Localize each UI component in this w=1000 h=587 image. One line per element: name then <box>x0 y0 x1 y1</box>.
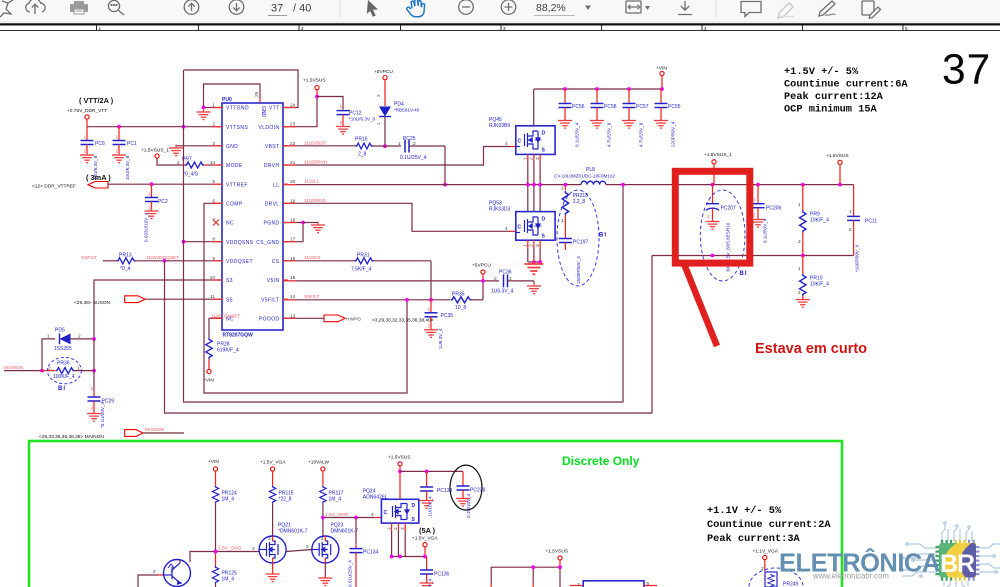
resistor PR124 <box>212 486 237 552</box>
svg-text:VDDQSET: VDDQSET <box>226 259 253 265</box>
svg-text:PR31: PR31 <box>357 252 370 258</box>
IC right pin stubs <box>283 108 288 319</box>
svg-text:1: 1 <box>340 104 343 110</box>
toolbar icon download arrow <box>678 1 692 15</box>
svg-text:PC136: PC136 <box>434 572 450 578</box>
diode PD4 RB501V-40 <box>376 80 420 146</box>
capacitor PC6 <box>80 127 105 180</box>
svg-text:+VIN: +VIN <box>656 66 667 72</box>
wire LL rail after coil <box>606 184 675 186</box>
IC right pin names <box>256 106 280 323</box>
svg-text:+1.1V +/- 5%: +1.1V +/- 5% <box>707 505 782 517</box>
svg-text:PC35: PC35 <box>441 313 454 319</box>
wire PC25 to LL rail <box>444 146 446 185</box>
connector arrow MAINON (tip right) <box>125 430 143 437</box>
op-amp U1 : regulator IC PU0 RT8207GQW body <box>222 103 283 330</box>
blue comparator box bottom <box>583 581 644 587</box>
svg-text:COMP: COMP <box>226 202 243 208</box>
logo circuit traces left <box>901 543 937 578</box>
svg-text:+10VALW: +10VALW <box>308 460 329 466</box>
svg-text:1: 1 <box>386 527 392 530</box>
svg-text:25: 25 <box>254 91 260 97</box>
transistor Q PQ23 DMN601K-7 <box>312 523 358 586</box>
wire to PC139/PC238 <box>400 470 463 472</box>
logo chip body <box>939 543 976 578</box>
transistor Q PQ45 RJK0389 <box>489 89 555 154</box>
resistor PR218 <box>561 185 588 238</box>
svg-text:*0_4: *0_4 <box>120 266 131 272</box>
svg-text:.1U/10V_4: .1U/10V_4 <box>428 496 433 518</box>
svg-text:VLDOIN: VLDOIN <box>258 125 279 131</box>
wire CS down <box>430 261 432 300</box>
svg-text:PD5: PD5 <box>55 328 65 334</box>
junction PC2 <box>150 182 154 186</box>
svg-text:2: 2 <box>91 406 94 412</box>
transistor Q bottom-left (pre-biased) <box>164 560 191 587</box>
wire box lower left <box>491 567 560 587</box>
svg-text:PC25: PC25 <box>403 136 416 142</box>
svg-text:V5FILT: V5FILT <box>304 294 319 300</box>
IC right pin numbers <box>290 103 296 320</box>
svg-text:+VIN: +VIN <box>203 378 214 384</box>
svg-text:2: 2 <box>428 323 431 329</box>
IC left pin stubs <box>217 108 222 319</box>
resistor PR13 <box>117 252 136 272</box>
capacitor PC2 <box>144 184 168 242</box>
svg-text:Discrete Only: Discrete Only <box>562 454 640 468</box>
svg-text:2: 2 <box>413 141 416 147</box>
svg-text:3: 3 <box>268 536 271 542</box>
resistor PR249 in dashed ellipse <box>749 566 803 587</box>
svg-text:2: 2 <box>561 186 564 192</box>
svg-text:/ 40: / 40 <box>293 3 311 15</box>
logo circuit traces right <box>979 544 1000 573</box>
svg-text:BI: BI <box>58 386 66 392</box>
svg-text:2: 2 <box>252 546 255 552</box>
svg-text:V_4: V_4 <box>428 578 433 587</box>
svg-text:S3: S3 <box>226 278 233 284</box>
transistor Q PQ24 AON6426L <box>363 489 419 524</box>
connector arrow HWPG <box>324 315 345 322</box>
svg-text:(5A ): (5A ) <box>419 526 436 535</box>
svg-text:RJK03D3: RJK03D3 <box>489 207 511 213</box>
svg-text:1: 1 <box>849 209 852 215</box>
wire lower output rail <box>652 255 854 257</box>
toolbar icon star (cut at left edge) <box>0 0 13 17</box>
svg-text:*0.1U/50V_4: *0.1U/50V_4 <box>100 402 105 428</box>
wire VDDQSET row <box>103 260 117 262</box>
toolbar icon hand tool (blue) <box>407 0 425 17</box>
svg-text:619K/F_4: 619K/F_4 <box>217 348 239 354</box>
wire VTTREF <box>108 183 222 185</box>
capacitor PC12 <box>336 104 375 134</box>
wire pin3 GND <box>176 145 222 147</box>
svg-text:2: 2 <box>376 94 382 97</box>
svg-text:D: D <box>542 217 546 223</box>
svg-text:+1.5VSUS: +1.5VSUS <box>546 549 569 555</box>
resistor PR9 <box>798 185 829 256</box>
svg-text:NC: NC <box>226 221 234 227</box>
wire 1.5V_VGA rail <box>392 556 427 558</box>
wire VTTSNS rail <box>87 126 222 128</box>
svg-text:2: 2 <box>798 290 801 296</box>
wire PGND <box>283 223 303 242</box>
capacitor PC134 <box>348 518 379 587</box>
red highlight arrow <box>684 264 717 346</box>
wire 1.5V_ONG lower row <box>138 575 158 587</box>
svg-text:3: 3 <box>535 244 541 247</box>
toolbar icon search <box>108 0 124 15</box>
svg-text:VTTREF: VTTREF <box>226 182 248 188</box>
capacitor PC35 <box>424 300 453 349</box>
svg-text:PC58: PC58 <box>604 104 617 110</box>
svg-text:2: 2 <box>153 569 156 575</box>
svg-text:*DMN601K-7: *DMN601K-7 <box>278 529 308 535</box>
svg-text:DMN601K-7: DMN601K-7 <box>331 529 359 535</box>
svg-text:HWPG: HWPG <box>346 317 361 323</box>
svg-text:4: 4 <box>505 141 508 147</box>
svg-text:Peak current:12A: Peak current:12A <box>784 91 884 103</box>
svg-text:PC197: PC197 <box>573 239 589 245</box>
svg-text:5: 5 <box>905 26 908 31</box>
wire inner top loop pin1/pin25 <box>204 84 261 108</box>
wire PQ21 gate row <box>286 550 312 552</box>
toolbar icon print <box>70 1 88 14</box>
PQ24 source stubs <box>392 523 406 531</box>
svg-text:1: 1 <box>77 365 80 371</box>
svg-text:2.2_8: 2.2_8 <box>573 199 586 205</box>
wire VDDQSNS <box>184 241 223 243</box>
svg-text:2: 2 <box>494 276 497 282</box>
svg-text:<3,29,30,32,33,35,36,38,40>: <3,29,30,32,33,35,36,38,40> <box>372 318 434 324</box>
svg-text:+1.5VSUS: +1.5VSUS <box>826 153 849 159</box>
svg-text:2: 2 <box>529 244 535 247</box>
svg-text:2_8: 2_8 <box>358 151 367 157</box>
svg-text:CS_GND: CS_GND <box>256 240 279 246</box>
svg-text:Peak current:3A: Peak current:3A <box>707 533 801 545</box>
svg-text:2: 2 <box>761 566 764 572</box>
svg-text:3: 3 <box>400 527 406 530</box>
svg-text:2: 2 <box>177 160 180 166</box>
capacitor PC206 <box>751 185 782 243</box>
wire VLDOIN <box>316 90 318 97</box>
wire MAINON row <box>4 370 42 372</box>
svg-text:V5IN: V5IN <box>267 278 280 284</box>
sheet border top thick line <box>0 23 1000 25</box>
junction loopC start <box>163 259 167 263</box>
svg-text:4: 4 <box>371 512 374 518</box>
svg-text:1.5V_ONG: 1.5V_ONG <box>218 546 242 552</box>
terminal +5VPCU lower <box>481 270 485 274</box>
wire DRVL to PQ53 gate <box>283 203 510 231</box>
svg-text:VSFILT: VSFILT <box>81 255 97 261</box>
svg-text:2: 2 <box>78 333 81 339</box>
transistor Q PQ21 DMN601K-7 <box>259 523 308 582</box>
svg-text:GND: GND <box>260 106 266 118</box>
resistor PR125 <box>212 552 237 587</box>
svg-text:*10U/6.3V_8: *10U/6.3V_8 <box>349 117 375 122</box>
svg-text:BI: BI <box>740 271 748 277</box>
svg-text:MAINON: MAINON <box>145 427 165 433</box>
svg-text:3: 3 <box>535 157 541 160</box>
toolbar icon zoom in <box>501 0 516 14</box>
resistor PR117 <box>320 486 344 536</box>
svg-text:1: 1 <box>428 307 431 313</box>
svg-text:+5VPCU: +5VPCU <box>374 69 393 75</box>
svg-text:PGND: PGND <box>263 221 279 227</box>
wire output rail right <box>675 184 854 186</box>
svg-text:2: 2 <box>148 206 151 212</box>
svg-text:+1.5V_VGA: +1.5V_VGA <box>260 460 286 466</box>
svg-text:4.7U/25V_8: 4.7U/25V_8 <box>607 122 612 147</box>
svg-text:1: 1 <box>116 135 119 141</box>
junction PC1 <box>117 125 121 129</box>
PQ53 source stubs to ground <box>528 240 540 248</box>
IC left pin names <box>226 106 254 323</box>
svg-text:1: 1 <box>509 276 512 282</box>
svg-text:2: 2 <box>116 149 119 155</box>
BI ellipse PR218/PC197 <box>557 190 599 286</box>
wire PD5 to PR36 junction <box>93 339 95 371</box>
svg-text:PL8: PL8 <box>586 167 595 173</box>
svg-text:+1.5VSUS_1: +1.5VSUS_1 <box>704 152 732 158</box>
inductor PL8 <box>554 167 615 185</box>
svg-text:2: 2 <box>707 214 710 220</box>
svg-text:BI: BI <box>599 233 607 239</box>
svg-text:0.1U/10V_4: 0.1U/10V_4 <box>466 493 471 518</box>
wire S3 <box>94 280 222 339</box>
wire diode branch riser <box>42 339 55 371</box>
toolbar divider <box>339 0 341 17</box>
toolbar icon page down <box>229 0 244 14</box>
toolbar icon select cursor <box>367 0 378 17</box>
svg-text:88,2%: 88,2% <box>536 2 566 14</box>
svg-text:OCP minimum 15A: OCP minimum 15A <box>784 104 878 116</box>
svg-text:1M_4: 1M_4 <box>329 497 342 503</box>
svg-text:+1.5VSUS: +1.5VSUS <box>303 78 326 84</box>
svg-text:1SS355: 1SS355 <box>54 346 72 352</box>
svg-text:1: 1 <box>84 135 87 141</box>
svg-text:DRVL: DRVL <box>265 202 280 208</box>
capacitor PC25 <box>398 136 445 161</box>
resistor PR31 <box>351 252 431 272</box>
svg-text:<29,33,35,36,38,39> MAINON: <29,33,35,36,38,39> MAINON <box>39 434 104 440</box>
IC left pin numbers <box>210 103 216 301</box>
resistor PR115 <box>269 486 293 536</box>
svg-text:PGOOD: PGOOD <box>259 317 280 323</box>
toolbar background <box>0 0 1000 22</box>
junction loopB <box>182 125 186 129</box>
svg-text:2: 2 <box>340 120 343 126</box>
svg-text:1116VDDQSET: 1116VDDQSET <box>146 255 179 261</box>
svg-text:PU0: PU0 <box>222 97 232 103</box>
svg-text:CV-10L0MZ01/DC-10F0M102: CV-10L0MZ01/DC-10F0M102 <box>554 174 615 179</box>
sheet border zone digits <box>99 26 909 31</box>
toolbar icon edit page <box>862 1 881 18</box>
svg-text:100K/F_4: 100K/F_4 <box>53 374 75 380</box>
capacitor PC207 (polarized) <box>706 185 737 272</box>
svg-text:PR249: PR249 <box>783 582 799 587</box>
spec text +1.5V <box>784 66 908 116</box>
svg-text:37: 37 <box>942 47 991 94</box>
IC pin stub overlay (red stubs drawn above wires) <box>212 108 296 319</box>
svg-text:Countinue current:2A: Countinue current:2A <box>707 519 831 531</box>
svg-text:0.033U/10V_4: 0.033U/10V_4 <box>144 212 149 242</box>
svg-text:15: 15 <box>290 275 296 281</box>
svg-text:2: 2 <box>306 544 309 550</box>
capacitor PC136 <box>420 557 450 587</box>
ground PQ53 <box>524 259 543 274</box>
svg-text:( 3mA ): ( 3mA ) <box>86 173 111 182</box>
pin 25 top stub <box>259 98 261 103</box>
svg-text:Estava em curto: Estava em curto <box>755 341 867 357</box>
toolbar divider 2 <box>715 0 717 17</box>
svg-text:+VIN: +VIN <box>208 459 219 465</box>
connector arrow SUSON (tip right) <box>125 296 145 303</box>
svg-text:1: 1 <box>523 157 529 160</box>
svg-text:1M_4: 1M_4 <box>222 577 235 583</box>
wire MODE <box>157 158 182 165</box>
svg-text:1: 1 <box>754 197 757 203</box>
svg-text:4: 4 <box>704 26 707 31</box>
svg-text:220P/50V_4: 220P/50V_4 <box>671 121 676 147</box>
svg-text:+1.5V +/- 5%: +1.5V +/- 5% <box>784 66 859 78</box>
svg-text:PR36: PR36 <box>57 360 70 366</box>
svg-text:1.5V_ONG: 1.5V_ONG <box>325 512 349 518</box>
svg-text:3: 3 <box>577 582 580 587</box>
wire VIN rail <box>534 88 662 90</box>
svg-text:PC134: PC134 <box>363 550 379 556</box>
capacitor PC55 <box>654 89 681 147</box>
svg-text:1: 1 <box>798 202 801 208</box>
wire S5 <box>145 298 222 300</box>
svg-text:0.01U/25V_4: 0.01U/25V_4 <box>348 560 353 587</box>
ground pin1 <box>197 109 211 120</box>
capacitor PC139 <box>420 471 453 518</box>
capacitor PC36 <box>491 270 541 295</box>
svg-text:RJK03B9: RJK03B9 <box>489 123 510 129</box>
capacitor PC197 <box>559 239 589 285</box>
logo chip pins <box>936 540 953 581</box>
svg-text:1: 1 <box>398 141 401 147</box>
svg-text:C: C <box>384 510 388 516</box>
resistor PR7 <box>177 157 213 178</box>
svg-text:3: 3 <box>321 536 324 542</box>
svg-text:MODE: MODE <box>226 163 243 169</box>
resistor PR16 <box>355 136 401 157</box>
svg-text:*0_4/S: *0_4/S <box>183 172 199 178</box>
svg-text:VDDQSNS: VDDQSNS <box>226 240 254 246</box>
toolbar icon share/cloud upload <box>26 0 45 14</box>
wire transistor to gates <box>190 552 259 563</box>
svg-text:2: 2 <box>529 157 535 160</box>
svg-text:1: 1 <box>47 333 50 339</box>
svg-text:1: 1 <box>148 192 151 198</box>
svg-text:7.5K/F_4: 7.5K/F_4 <box>351 266 372 272</box>
toolbar icon highlighter (light) <box>777 3 794 18</box>
svg-text:*RB501V-40: *RB501V-40 <box>394 108 420 113</box>
ground PQ21 <box>272 563 274 574</box>
wire LL rail <box>283 184 581 186</box>
svg-text:+5VPCU: +5VPCU <box>472 263 491 269</box>
svg-text:1: 1 <box>798 266 801 272</box>
wire PGOOD <box>283 317 324 319</box>
toolbar icon fit page <box>626 1 641 13</box>
terminal +1.5VSUS_1 left <box>155 154 159 158</box>
svg-text:*22_8: *22_8 <box>279 497 292 503</box>
toolbar icon page up <box>184 0 199 14</box>
svg-text:1116CS: 1116CS <box>304 255 321 261</box>
svg-text:PC57: PC57 <box>636 104 649 110</box>
svg-text:<12> DDR_VTTREF: <12> DDR_VTTREF <box>32 184 76 190</box>
svg-text:10K/F_4: 10K/F_4 <box>810 282 829 288</box>
red highlight box <box>675 171 750 263</box>
svg-text:RT8207GQW: RT8207GQW <box>223 333 254 339</box>
capacitor PC29 <box>87 371 114 428</box>
sheet border inner line <box>0 29 1000 31</box>
svg-text:2: 2 <box>48 365 51 371</box>
svg-text:PR35: PR35 <box>452 291 465 297</box>
terminal +5VPCU <box>383 76 387 80</box>
svg-text:1500P/50V_4: 1500P/50V_4 <box>576 256 581 284</box>
svg-text:PC6: PC6 <box>95 141 105 147</box>
svg-text:2: 2 <box>798 239 801 245</box>
svg-text:1: 1 <box>523 244 529 247</box>
ground PGND <box>311 222 325 233</box>
svg-text:<29,38> SUSON: <29,38> SUSON <box>74 300 111 306</box>
capacitor PC11 <box>847 185 877 272</box>
transistor Q PQ53 RJK03D3 <box>489 201 555 241</box>
svg-text:VTT: VTT <box>269 106 280 112</box>
svg-text:1U6.3V_4: 1U6.3V_4 <box>438 328 443 349</box>
svg-text:1: 1 <box>376 122 382 125</box>
svg-text:+1.1V_VGA: +1.1V_VGA <box>753 549 779 555</box>
toolbar icon fill&sign pen <box>819 1 836 16</box>
svg-text:+0.75V_DDR_VTT: +0.75V_DDR_VTT <box>67 108 107 114</box>
svg-text:PC11: PC11 <box>865 219 877 225</box>
svg-text:+1.5V_VGA: +1.5V_VGA <box>412 535 438 541</box>
wire DRVH to PQ45 gate <box>283 147 510 166</box>
spec text +1.1V <box>707 505 831 545</box>
svg-text:PR16: PR16 <box>355 136 368 142</box>
svg-text:2: 2 <box>849 227 852 233</box>
svg-text:BR: BR <box>940 550 975 578</box>
svg-text:( VTT/2A ): ( VTT/2A ) <box>79 96 114 105</box>
svg-text:2: 2 <box>84 149 87 155</box>
svg-text:V5FILT: V5FILT <box>261 297 279 303</box>
green discrete-only box <box>29 441 842 587</box>
resistor PR35 <box>451 291 484 311</box>
svg-text:LL: LL <box>273 182 279 188</box>
svg-text:PC206: PC206 <box>766 206 782 212</box>
svg-text:PC56: PC56 <box>572 104 585 110</box>
wire to PC12 <box>317 97 343 110</box>
toolbar icon comment bubble <box>741 2 761 17</box>
wire COMP loopA <box>204 203 407 393</box>
PQ45 source stubs <box>528 154 540 161</box>
wire V5FILT row <box>283 299 450 301</box>
capacitor PC238 in ellipse <box>450 465 486 518</box>
capacitor PC58 <box>590 89 617 147</box>
svg-text:1116LL: 1116LL <box>304 179 320 185</box>
svg-text:10_8: 10_8 <box>455 305 466 311</box>
pin 7 NC no-connect X <box>213 220 219 226</box>
svg-text:PC36: PC36 <box>499 270 512 276</box>
svg-text:VTTSNS: VTTSNS <box>226 125 248 131</box>
diode PD5 1SS355 <box>47 328 81 352</box>
svg-text:1: 1 <box>561 218 564 224</box>
svg-text:1U6.3V_4: 1U6.3V_4 <box>491 289 513 295</box>
